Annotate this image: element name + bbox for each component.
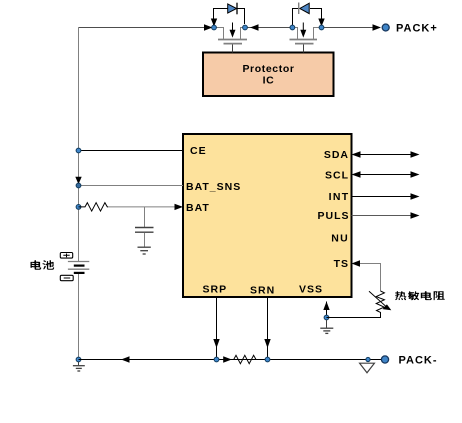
battery plus marker [60,253,72,259]
diode D1 branch wires [214,9,245,28]
arrow into BAT pin [175,204,184,210]
svg-text:Protector: Protector [242,63,294,75]
node bottom-left [76,357,81,362]
arrow down into node at 214,27.5 [211,19,217,27]
svg-text:PACK-: PACK- [399,355,438,367]
arrow down into node at 321.5,27.5 [318,19,324,27]
wire: top rail horizontal [79,27,212,29]
node VSS junction [324,315,329,320]
transistor Q2 (right MOSFET) [290,28,322,53]
node BAT_SNS junction [76,183,81,188]
svg-text:VSS: VSS [299,284,323,296]
arrow pointing left mid wire [250,24,259,30]
thermistor RT1 [327,291,385,318]
arrow pointing left on bottom wire [121,356,130,362]
ground (open triangle) [360,363,375,373]
battery minus marker [60,275,73,280]
bottom wire [79,359,382,361]
svg-text:NU: NU [331,232,349,244]
transistor Q1 (left MOSFET) [214,28,247,53]
ground (VSS) [320,320,333,333]
svg-text:PACK+: PACK+ [396,23,438,35]
node junction Q2 right [319,25,324,30]
wire: left rail vertical [78,28,80,360]
ground (C1) [138,247,151,254]
protector IC U2 body [203,53,334,97]
label remin dianzu (thermistor) [395,291,445,300]
wire between FETs [245,27,292,29]
svg-text:SCL: SCL [325,169,349,181]
resistor R2 (sense) [234,355,256,363]
diode D2 [300,3,309,13]
battery BT1 plates [68,261,89,263]
wire INT [352,196,415,198]
main IC U1 body [183,134,352,297]
wire BAT to IC [108,206,181,208]
node BAT junction [76,205,81,210]
node junction Q1 right [243,25,248,30]
diode D1 [228,4,237,13]
svg-text:IC: IC [263,75,275,87]
wire to PACK+ [322,27,380,29]
Q2 body arrow [302,23,304,34]
node PACK- terminal [381,356,388,363]
node SRN junction [265,357,270,362]
node junction Q2 left [290,25,295,30]
svg-text:SRP: SRP [203,284,228,296]
svg-text:BAT: BAT [186,202,210,214]
wire BAT_SNS [79,185,184,187]
capacitor C1 [144,207,146,227]
node junction Q1 left [212,25,217,30]
svg-text:INT: INT [329,191,350,203]
arrow into Q1 left node [204,24,213,30]
wire TS [359,264,381,292]
node before PACK- [366,357,370,361]
Q1 body arrow [232,23,234,34]
svg-text:TS: TS [334,258,349,270]
label dianchi (battery) [31,260,55,270]
thermistor arrow [369,291,387,307]
node PACK+ terminal [382,24,389,31]
wire SRN [267,298,269,360]
node SRP junction [214,357,219,362]
arrow down into BAT_SNS junction [75,177,81,185]
arrow pointing right before sense resistor [223,356,232,362]
wire SCL [357,174,414,176]
node CE junction [76,148,81,153]
svg-text:PULS: PULS [317,210,349,222]
svg-text:CE: CE [190,145,207,157]
svg-text:SRN: SRN [250,285,275,297]
wire VSS [326,302,328,318]
wire SDA [357,154,414,156]
ground (battery rail) [73,362,85,371]
wire CE [79,150,184,152]
wire PULS [352,215,415,217]
resistor R1 (BAT series) [79,203,109,211]
svg-text:SDA: SDA [324,149,349,161]
svg-text:BAT_SNS: BAT_SNS [186,181,241,193]
diode D2 branch wires [293,9,322,28]
wire SRP [216,298,218,360]
